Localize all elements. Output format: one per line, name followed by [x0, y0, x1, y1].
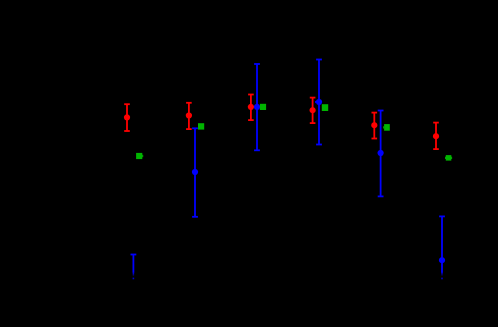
- red point 6 error bar: [433, 123, 439, 150]
- green point 6 marker: [446, 155, 452, 161]
- green point 6 x-error nubs: [444, 157, 447, 159]
- red point 5 error bar: [372, 113, 378, 139]
- red point 1 marker: [124, 114, 130, 120]
- red point 3 error bar: [248, 95, 254, 121]
- red point 4 error bar: [310, 98, 316, 124]
- blue point 3 error bar: [254, 64, 260, 150]
- red point 6 marker: [433, 133, 439, 139]
- green point 5 marker: [384, 124, 390, 131]
- blue point 6 faint end dot: [441, 278, 443, 280]
- green point 2 marker: [198, 123, 204, 129]
- red point 1 error bar: [124, 104, 130, 131]
- green point 4 marker: [322, 104, 328, 111]
- blue point 1 error bar (extends below plot, fading): [131, 255, 137, 273]
- blue point 3 marker: [254, 104, 260, 110]
- red point 5 marker: [371, 122, 377, 128]
- blue point 6 marker: [439, 257, 445, 263]
- blue point 4 error bar: [316, 60, 322, 145]
- blue point 6 error bar (extends below plot, fading): [439, 216, 445, 272]
- red point 2 error bar: [186, 103, 192, 129]
- green point 1 marker: [136, 153, 142, 159]
- blue point 2 error bar: [192, 128, 198, 217]
- red point 2 marker: [186, 112, 192, 118]
- red point 4 marker: [310, 107, 316, 113]
- blue point 1 faint end dot: [133, 278, 135, 280]
- blue point 5 marker: [378, 150, 384, 156]
- blue point 4 x-error nub: [314, 101, 317, 103]
- green point 5 x-error nub: [382, 126, 385, 128]
- green point 3 marker: [260, 104, 266, 110]
- blue point 2 marker: [192, 169, 198, 175]
- blue point 4 marker: [316, 99, 322, 105]
- red point 3 marker: [248, 104, 254, 110]
- blue point 5 error bar: [378, 111, 384, 197]
- green point 1 x-error nub: [141, 155, 144, 157]
